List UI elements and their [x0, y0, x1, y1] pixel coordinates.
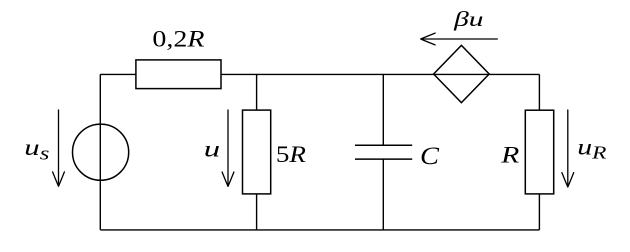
svg-text:R: R [500, 142, 519, 168]
svg-text:0,2R: 0,2R [152, 26, 204, 52]
svg-text:C: C [420, 141, 440, 169]
svg-text:5R: 5R [276, 143, 306, 168]
svg-text:u: u [204, 137, 220, 162]
svg-text:βu: βu [453, 7, 484, 31]
